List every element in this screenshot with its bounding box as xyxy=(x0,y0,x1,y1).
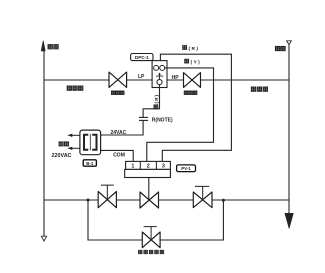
svg-text:220VAC: 220VAC xyxy=(52,153,72,159)
manual valve V1 (LP side) xyxy=(109,72,127,87)
label 供水 xyxy=(275,46,285,50)
supply water riser pipe (right vertical) xyxy=(288,45,290,215)
bypass pipe right riser xyxy=(160,200,223,240)
label COM xyxy=(113,153,125,159)
control valve PV-1 body xyxy=(140,192,159,208)
label R(NOTE) xyxy=(152,118,173,124)
terminal pin 3 xyxy=(162,164,165,170)
manual bypass valve V5 xyxy=(142,227,160,248)
svg-text:B-1: B-1 xyxy=(86,161,94,166)
manual valve V2 (HP side) xyxy=(184,73,201,88)
wire xyxy=(212,199,289,201)
label LP xyxy=(138,74,145,80)
label 高压端 xyxy=(251,87,267,91)
wire HP impulse line to supply riser xyxy=(201,79,290,81)
actuator terminal block xyxy=(126,161,171,169)
svg-text:24VAC: 24VAC xyxy=(111,130,127,136)
svg-text:3: 3 xyxy=(162,164,165,170)
return water riser pipe (left vertical) xyxy=(43,50,45,236)
label 红(R) vertical xyxy=(154,94,160,109)
svg-text:COM: COM xyxy=(113,153,125,159)
sensing circle (bottom) xyxy=(157,80,162,85)
actuator body PV-1 xyxy=(125,169,171,177)
junction node (left bypass tee) xyxy=(87,199,90,202)
label 黄(Y) xyxy=(185,59,201,65)
wire resistor to 24VAC xyxy=(101,120,144,135)
wire LP impulse line xyxy=(44,79,109,81)
shutoff valve V4 (right, with handle) xyxy=(193,186,212,207)
svg-text:2: 2 xyxy=(147,164,150,170)
svg-text:(R): (R) xyxy=(189,46,200,52)
label 220VAC xyxy=(52,153,72,159)
label 24VAC xyxy=(111,130,127,136)
resistor R (NOTE) plates xyxy=(139,117,148,120)
bypass pipe left drop xyxy=(88,200,142,240)
return water flow arrow (up) xyxy=(41,41,45,52)
tag box PV-1 xyxy=(177,165,196,172)
svg-text:(R): (R) xyxy=(154,94,160,104)
valve stem (actuator to control valve) xyxy=(148,178,150,201)
svg-text:DPC-1: DPC-1 xyxy=(135,55,149,60)
label 低压端 xyxy=(67,86,83,90)
wire black (B) from DPC-1 bottom to resistor xyxy=(143,85,159,118)
wire xyxy=(116,199,140,201)
tag box B-1 xyxy=(83,160,96,166)
transformer T1 xyxy=(80,130,101,155)
label 手动阀 (LP valve) xyxy=(111,91,124,95)
svg-text:LP: LP xyxy=(138,74,145,80)
label HP xyxy=(172,75,180,81)
wire COM to terminal 1 xyxy=(101,150,134,161)
terminal pin 2 xyxy=(147,164,150,170)
label 红(R) xyxy=(183,46,200,52)
indicator circle (left) xyxy=(154,65,159,70)
wire valve to DPC-1 LP port xyxy=(127,79,153,81)
svg-text:1: 1 xyxy=(131,164,134,170)
DPC-1 controller body U1 xyxy=(152,61,167,88)
wire xyxy=(159,199,194,201)
svg-text:(Y): (Y) xyxy=(191,59,202,65)
indicator circle (right) xyxy=(160,65,165,70)
power lead L2 with arrow xyxy=(67,147,80,150)
svg-text:R(NOTE): R(NOTE) xyxy=(152,118,173,124)
supply pipe top marker (open V) xyxy=(287,41,292,45)
terminal pin 1 xyxy=(131,164,134,170)
junction node (right bypass tee) xyxy=(222,199,225,202)
wire DPC-1 HP port to valve xyxy=(167,79,184,81)
label 回水 xyxy=(48,45,58,49)
wire yellow (Y) from DPC-1 to terminal 2 xyxy=(147,68,214,161)
wire red (R) from DPC-1 top to terminal 3 xyxy=(160,54,231,161)
power lead L1 with arrow xyxy=(67,134,80,137)
svg-text:PV-1: PV-1 xyxy=(181,166,191,171)
tag box DPC-1 xyxy=(131,54,153,61)
main water line (bottom) xyxy=(44,199,98,201)
regulator symbol (arrow and bar) xyxy=(156,72,163,79)
supply water flow arrow (down) xyxy=(285,213,294,228)
shutoff valve V3 (left, with handle) xyxy=(98,185,116,208)
label 手动阀 (HP valve) xyxy=(184,91,197,95)
label 电源 xyxy=(59,142,69,146)
pipe end marker (open triangle, bottom of return riser) xyxy=(41,236,46,241)
label 手动旁通阀 xyxy=(139,250,164,253)
